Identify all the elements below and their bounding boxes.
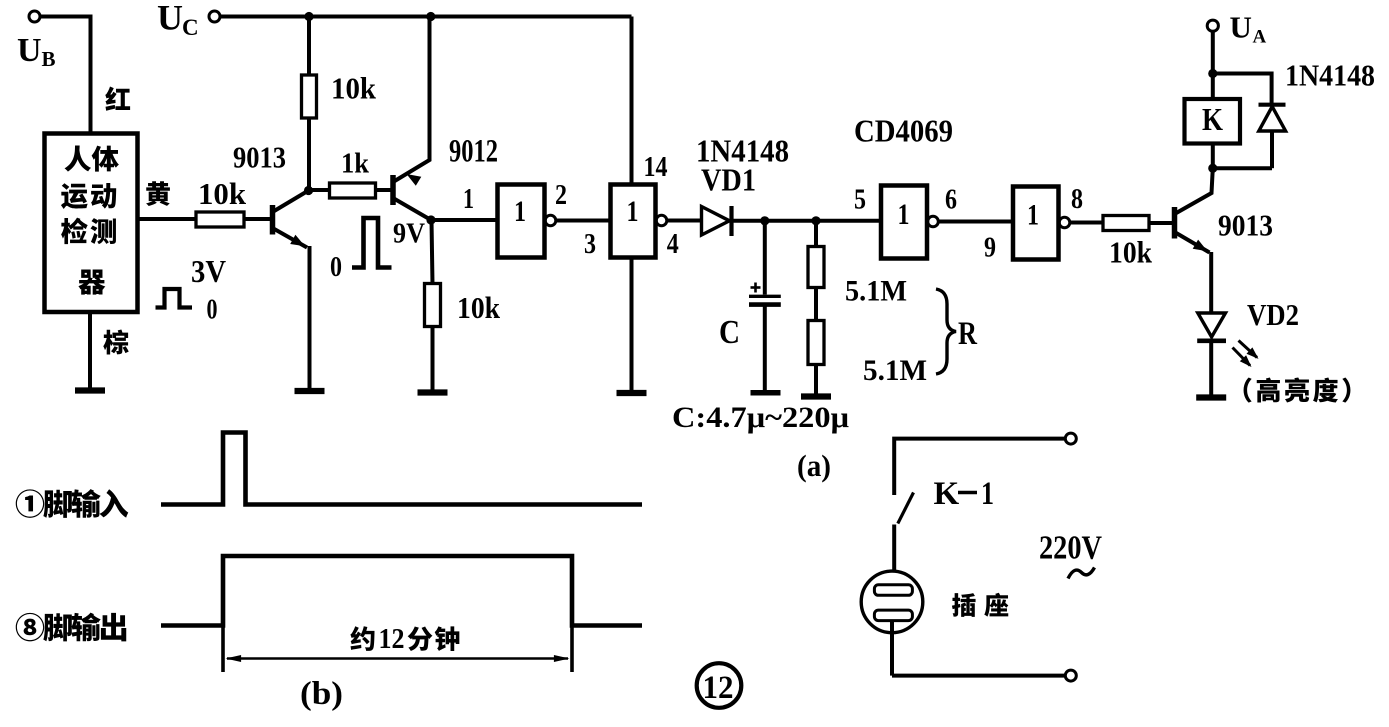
svg-text:9013: 9013: [1218, 208, 1273, 243]
svg-text:U: U: [17, 32, 42, 69]
svg-text:U: U: [1230, 10, 1252, 45]
svg-text:9V: 9V: [393, 218, 425, 250]
svg-text:10k: 10k: [331, 71, 377, 106]
svg-text:0: 0: [207, 294, 218, 326]
svg-text:14: 14: [644, 152, 668, 183]
svg-text:0: 0: [330, 251, 342, 283]
svg-text:VD1: VD1: [701, 162, 756, 198]
svg-text:9012: 9012: [449, 134, 498, 170]
svg-text:3V: 3V: [191, 253, 226, 289]
svg-text:9013: 9013: [233, 140, 286, 175]
svg-text:1: 1: [627, 195, 639, 228]
svg-text:9: 9: [984, 233, 996, 264]
svg-text:(b): (b): [300, 676, 343, 712]
svg-text:C:4.7μ~220μ: C:4.7μ~220μ: [672, 401, 849, 434]
svg-text:6: 6: [945, 185, 957, 216]
svg-text:B: B: [42, 47, 56, 71]
svg-text:5.1M: 5.1M: [863, 354, 927, 387]
svg-text:12: 12: [703, 670, 734, 706]
svg-text:5: 5: [854, 185, 866, 216]
svg-text:3: 3: [584, 229, 596, 260]
svg-text:R: R: [958, 316, 978, 352]
svg-text:12: 12: [379, 624, 405, 655]
svg-text:10k: 10k: [1109, 235, 1153, 270]
svg-text:4: 4: [667, 229, 679, 260]
svg-text:10k: 10k: [457, 290, 501, 325]
svg-text:1: 1: [981, 476, 994, 512]
svg-text:C: C: [182, 15, 199, 40]
svg-text:1: 1: [898, 198, 910, 231]
svg-text:1k: 1k: [341, 148, 370, 180]
svg-text:VD2: VD2: [1247, 297, 1299, 332]
svg-text:C: C: [719, 314, 740, 351]
svg-text:1: 1: [1027, 199, 1039, 232]
svg-text:1: 1: [514, 195, 526, 228]
svg-text:K: K: [934, 476, 960, 512]
svg-text:(a): (a): [797, 448, 831, 483]
svg-text:8: 8: [1071, 184, 1083, 215]
svg-text:5.1M: 5.1M: [845, 275, 907, 308]
svg-text:10k: 10k: [198, 176, 247, 211]
svg-text:220V: 220V: [1039, 530, 1102, 567]
svg-text:CD4069: CD4069: [854, 113, 953, 149]
svg-text:1: 1: [463, 184, 474, 215]
svg-text:1N4148: 1N4148: [1285, 58, 1375, 93]
svg-text:U: U: [157, 0, 183, 38]
svg-text:2: 2: [555, 180, 567, 211]
svg-text:A: A: [1253, 27, 1267, 48]
svg-text:K: K: [1202, 101, 1223, 137]
